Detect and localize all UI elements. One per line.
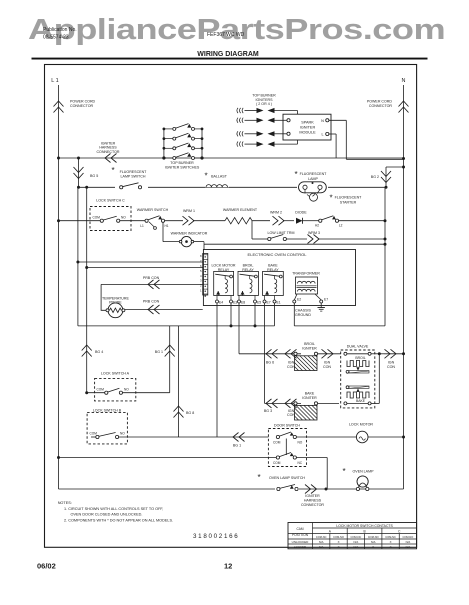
svg-text:FLUORESCENT: FLUORESCENT [120,170,148,174]
svg-text:E7: E7 [324,298,328,302]
svg-text:TRANSFORMER: TRANSFORMER [292,272,320,276]
svg-text:LAMP SWITCH: LAMP SWITCH [121,175,146,179]
svg-text:NO: NO [121,215,126,219]
svg-text:CONNECTOR: CONNECTOR [70,104,93,108]
svg-text:BG 4: BG 4 [95,350,103,354]
svg-text:COM-NO: COM-NO [368,535,379,539]
svg-text:IGNITER: IGNITER [300,126,316,130]
svg-text:CONNECTOR: CONNECTOR [301,503,324,507]
svg-text:*: * [204,172,207,181]
svg-text:IGNITER: IGNITER [302,346,317,350]
svg-text:12: 12 [224,562,232,571]
svg-text:PRB CON: PRB CON [143,276,160,280]
svg-text:N: N [321,119,324,123]
svg-text:COM-NC: COM-NC [316,535,327,539]
svg-text:BG 6: BG 6 [266,361,274,365]
svg-text:POSI TION: POSI TION [292,533,309,537]
svg-text:NO: NO [120,432,125,436]
svg-text:SPARK: SPARK [301,121,314,125]
svg-text:Publication No.: Publication No. [43,27,77,33]
svg-text:B: B [363,530,365,534]
svg-text:*: * [329,194,332,203]
svg-text:COM: COM [273,461,281,465]
svg-text:2. COMPONENTS WITH * DO NOT A: 2. COMPONENTS WITH * DO NOT APPEAR ON AL… [64,519,173,523]
svg-text:CAM: CAM [296,527,303,531]
svg-text:BALLAST: BALLAST [211,175,228,179]
svg-text:COM: COM [97,387,105,391]
svg-text:IGNITER: IGNITER [302,396,317,400]
svg-text:POWER CORD: POWER CORD [70,100,96,104]
svg-text:BG 8: BG 8 [186,411,194,415]
svg-text:AppliancePartsPros.com: AppliancePartsPros.com [28,14,445,45]
svg-text:N/A: N/A [371,540,376,544]
svg-text:OVEN DOOR CLOSED AND UNLOCKED.: OVEN DOOR CLOSED AND UNLOCKED. [71,513,143,517]
svg-text:COM: COM [90,432,98,436]
svg-text:CONNECTOR: CONNECTOR [96,150,119,154]
svg-text:FLUORESCENT: FLUORESCENT [300,172,328,176]
svg-text:WARMER SWITCH: WARMER SWITCH [137,208,169,212]
svg-text:CONNECTOR: CONNECTOR [369,104,392,108]
svg-text:LAMP: LAMP [308,177,318,181]
svg-text:L 1: L 1 [51,78,58,84]
svg-text:CON: CON [387,365,395,369]
svg-text:*: * [342,467,345,476]
svg-text:BG 1: BG 1 [155,350,163,354]
svg-text:OVEN LAMP: OVEN LAMP [353,470,375,474]
svg-text:E5: E5 [257,300,261,304]
svg-text:PRB CON: PRB CON [143,300,160,304]
svg-text:GROUND: GROUND [295,313,311,317]
svg-text:08-5574-23: 08-5574-23 [43,35,69,41]
svg-text:LOCK MOTOR SWITCH CONTACTS: LOCK MOTOR SWITCH CONTACTS [336,524,393,528]
svg-text:WRM 2: WRM 2 [270,211,282,215]
svg-text:BG 2: BG 2 [371,175,379,179]
svg-text:IGNITER SWITCHES: IGNITER SWITCHES [165,166,200,170]
svg-text:H1: H1 [164,224,168,228]
svg-text:WARMER ELEMENT: WARMER ELEMENT [223,208,258,212]
svg-text:N/A: N/A [406,545,411,549]
svg-text:LOCK MOTOR: LOCK MOTOR [349,423,373,427]
svg-text:LOCK SWITCH C: LOCK SWITCH C [96,199,125,203]
svg-text:NO: NO [298,441,303,445]
svg-text:*: * [257,473,260,482]
svg-text:POWER CORD: POWER CORD [367,100,393,104]
svg-text:FEF367 WC WD: FEF367 WC WD [207,32,245,38]
svg-text:BG 3: BG 3 [264,409,272,413]
svg-text:UNLOCKED: UNLOCKED [292,540,310,544]
svg-text:N/A: N/A [319,545,324,549]
svg-text:E3: E3 [233,300,237,304]
svg-text:BG 1: BG 1 [233,444,241,448]
svg-text:N/A: N/A [354,540,359,544]
svg-text:DIODE: DIODE [295,211,307,215]
svg-text:E4: E4 [219,300,223,304]
svg-text:CON: CON [323,365,331,369]
svg-text:H2: H2 [315,224,319,228]
svg-text:DUAL VALVE: DUAL VALVE [347,345,369,349]
svg-text:FLUORESCENT: FLUORESCENT [335,196,363,200]
svg-text:E7: E7 [267,300,271,304]
svg-text:NO: NO [124,387,129,391]
svg-text:L2: L2 [339,224,343,228]
svg-text:1. CIRCUIT SHOWN WITH ALL CON: 1. CIRCUIT SHOWN WITH ALL CONTROLS SET T… [64,507,163,511]
svg-text:BAKE: BAKE [356,399,366,403]
svg-text:N/A: N/A [354,545,359,549]
svg-text:COM-NO: COM-NO [333,535,344,539]
svg-text:COM: COM [93,215,101,219]
svg-text:LOCK SWITCH B: LOCK SWITCH B [93,408,122,412]
svg-text:L1: L1 [140,224,144,228]
svg-text:BROIL: BROIL [355,356,365,360]
svg-text:N/A: N/A [319,540,324,544]
svg-text:COM: COM [273,441,281,445]
svg-text:WRM 1: WRM 1 [183,209,195,213]
svg-text:L: L [321,133,323,137]
svg-text:IGNITER: IGNITER [305,494,320,498]
svg-text:X: X [390,545,392,549]
svg-text:MODULE: MODULE [299,131,316,135]
svg-text:WARMER INDICATOR: WARMER INDICATOR [171,231,208,235]
svg-text:X: X [338,540,340,544]
svg-text:COM-NC: COM-NC [351,535,362,539]
svg-text:E8: E8 [241,300,245,304]
svg-text:COM-NO: COM-NO [403,535,414,539]
svg-text:*: * [111,166,114,175]
svg-text:STARTER: STARTER [340,201,357,205]
svg-text:HARNESS: HARNESS [304,499,322,503]
svg-text:NC: NC [298,461,303,465]
svg-text:X: X [390,540,392,544]
svg-text:X: X [372,545,374,549]
svg-text:LOCKED: LOCKED [294,545,307,549]
svg-text:X: X [338,545,340,549]
svg-text:DOOR SWITCH: DOOR SWITCH [274,424,300,428]
svg-text:*: * [294,170,297,179]
svg-text:NOTES:: NOTES: [58,501,72,505]
svg-text:WRM 3: WRM 3 [308,231,320,235]
svg-text:LOCK SWITCH A: LOCK SWITCH A [101,372,130,376]
svg-text:OVEN LAMP SWITCH: OVEN LAMP SWITCH [269,476,305,480]
svg-text:WIRING DIAGRAM: WIRING DIAGRAM [197,51,259,58]
svg-text:E2: E2 [297,298,301,302]
svg-text:N: N [402,78,406,84]
svg-text:ELECTRONIC OVEN CONTROL: ELECTRONIC OVEN CONTROL [248,252,308,257]
svg-text:N/A: N/A [406,540,411,544]
svg-text:E1: E1 [277,300,281,304]
svg-text:06/02: 06/02 [37,562,56,571]
svg-text:BG 5: BG 5 [90,174,98,178]
svg-text:3 1 8 0 0 2 1 6 6: 3 1 8 0 0 2 1 6 6 [193,533,238,540]
svg-text:( 2 OR 4 ): ( 2 OR 4 ) [256,102,272,106]
svg-text:LOW LIMIT TRM: LOW LIMIT TRM [267,231,294,235]
svg-text:COM-NC: COM-NC [385,535,396,539]
